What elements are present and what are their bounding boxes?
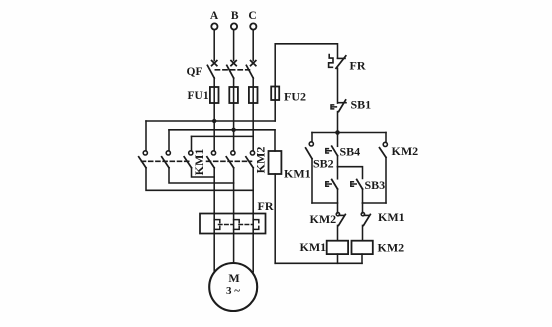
thermal relay FR heater box: [200, 214, 266, 234]
wire feeder phase C to KM1 column3: [192, 135, 254, 137]
contactor KM1 main contact 1: [139, 151, 148, 168]
wire KM1 contact3 to line A: [192, 168, 215, 177]
wire phase A down to QF: [213, 30, 215, 61]
fuse FU1 a: [210, 87, 219, 103]
svg-text:KM1: KM1: [378, 210, 405, 224]
contactor KM2 main contact 1: [207, 151, 216, 168]
wire control feed top rail: [275, 44, 337, 121]
QF linkage dashed: [215, 69, 249, 71]
svg-text:KM1: KM1: [284, 167, 311, 181]
junction dot control node: [335, 130, 340, 135]
wire SB3 to KM1 interlock: [362, 203, 364, 213]
wire right rail: [363, 202, 387, 204]
wire SB4 branch split: [338, 167, 363, 179]
wire KM1 column2 top: [168, 130, 170, 151]
wire SB1 to node: [337, 112, 339, 133]
svg-text:SB2: SB2: [313, 156, 334, 170]
wire FR to motor V: [233, 234, 235, 264]
wire KM1 contact1 to line C: [146, 168, 253, 191]
contact KM2 auxiliary NO self-hold: [380, 133, 388, 204]
svg-text:FU2: FU2: [284, 90, 306, 104]
svg-text:QF: QF: [187, 66, 203, 78]
wire line C to FR: [252, 168, 254, 214]
coil KM1: [327, 241, 348, 254]
wire phase C down to QF: [252, 30, 254, 61]
svg-text:KM2: KM2: [378, 241, 405, 255]
svg-text:A: A: [210, 10, 219, 22]
wire bottom return rail: [275, 262, 362, 264]
KM2 linkage dashed: [207, 160, 252, 162]
wire QF to FU1 pole2: [233, 78, 235, 87]
FR heater linkage dashed: [219, 224, 253, 226]
contact KM1 auxiliary NO self-hold: [306, 133, 314, 204]
svg-text:KM2: KM2: [310, 212, 337, 226]
svg-text:FR: FR: [350, 59, 366, 73]
svg-text:M: M: [228, 271, 239, 285]
button SB2 normally-open: [326, 167, 338, 213]
breaker QF pole 1: [207, 61, 216, 78]
wire QF to FU1 pole3: [252, 78, 254, 87]
wire KM1 contact2 to line B: [169, 168, 234, 183]
junction dot phase A: [212, 119, 216, 123]
svg-text:SB3: SB3: [365, 178, 386, 192]
button SB4 normally-open: [326, 133, 338, 167]
breaker QF pole 2: [227, 61, 236, 78]
wire phase A fuse to contacts: [213, 103, 215, 151]
wire coil KM1 bottom: [337, 254, 339, 263]
FR heater element 1: [214, 214, 220, 234]
svg-text:SB4: SB4: [340, 144, 361, 158]
svg-text:SB1: SB1: [351, 98, 372, 112]
wire feeder phase B to KM1 column2: [169, 129, 275, 131]
contactor KM2 main contact 3: [246, 151, 255, 168]
junction dot phase B: [231, 128, 235, 132]
FR heater element 3: [253, 214, 259, 234]
wire FR to SB1: [337, 68, 339, 103]
wire KM1 column1 top: [145, 121, 147, 151]
fuse control return line: [269, 151, 282, 174]
svg-text:B: B: [231, 10, 239, 22]
motor M circle: [209, 263, 257, 311]
wire line B to FR: [233, 168, 235, 214]
wire KM1 column3 top: [191, 136, 193, 150]
contactor KM2 main contact 2: [226, 151, 235, 168]
KM1 linkage dashed: [142, 160, 192, 162]
wire coil KM2 bottom: [361, 254, 363, 263]
wire phase C fuse to contacts: [252, 103, 254, 151]
contact FR normally-closed (control): [329, 55, 346, 69]
wire FR to motor W: [252, 234, 254, 272]
svg-text:C: C: [248, 10, 256, 22]
fuse FU2: [271, 87, 279, 101]
wire control rail: [312, 132, 386, 134]
wire phase B down to QF: [233, 30, 235, 61]
wire left rail to SB2 column: [312, 202, 338, 204]
wire QF to FU1 pole1: [213, 78, 215, 87]
node A terminal: [211, 23, 217, 29]
wire phase B fuse to contacts: [233, 103, 235, 151]
wire line A to FR: [213, 168, 215, 214]
wire feeder phase A to KM1 column1: [146, 120, 275, 122]
fuse FU1 c: [249, 87, 258, 103]
contact KM2 interlock normally-closed: [336, 213, 345, 241]
svg-text:3 ~: 3 ~: [226, 285, 240, 297]
node C terminal: [250, 23, 256, 29]
node B terminal: [231, 23, 237, 29]
wire FR to motor U: [213, 234, 215, 272]
svg-text:KM1: KM1: [300, 240, 327, 254]
contactor KM1 main contact 2: [162, 151, 171, 168]
breaker QF pole 3: [246, 61, 255, 78]
contact KM1 interlock normally-closed: [361, 213, 370, 241]
svg-text:KM2: KM2: [254, 147, 268, 174]
contactor KM1 main contact 3: [184, 151, 193, 168]
button SB3 normally-open: [351, 180, 363, 204]
svg-text:KM1: KM1: [192, 149, 206, 176]
wire return line up: [274, 174, 276, 263]
coil KM2: [352, 241, 373, 254]
fuse FU1 b: [229, 87, 238, 103]
FR heater element 2: [234, 214, 240, 234]
svg-text:FR: FR: [258, 199, 274, 213]
wire return line to phase B feeder: [274, 130, 276, 151]
svg-text:KM2: KM2: [392, 144, 419, 158]
button SB1 normally-closed: [331, 100, 346, 112]
svg-text:FU1: FU1: [188, 90, 209, 102]
